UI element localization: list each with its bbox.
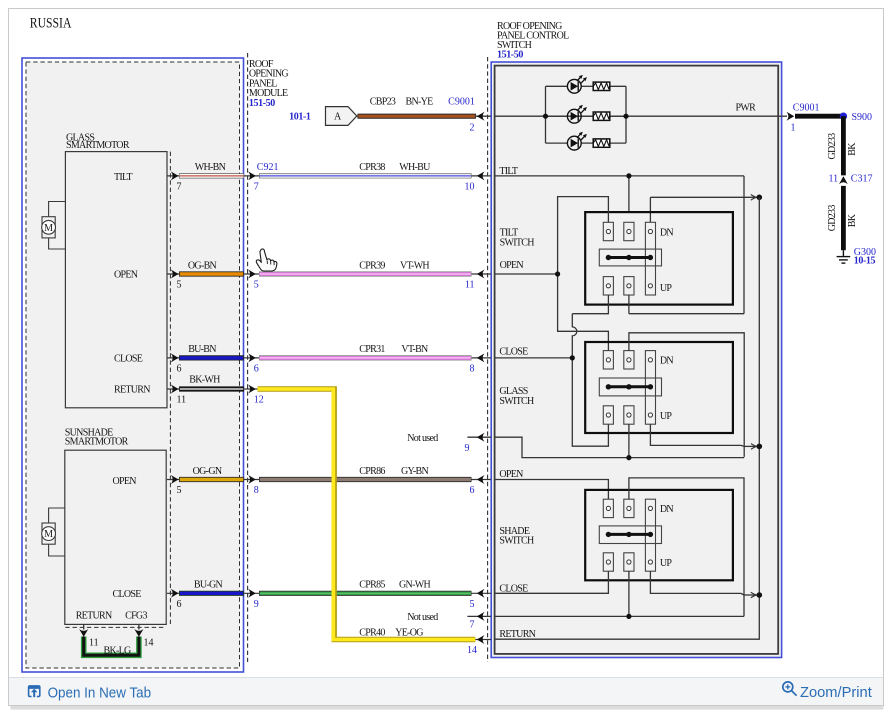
wire glass pin2 top to trunk — [629, 333, 759, 457]
svg-text:14: 14 — [467, 645, 477, 656]
svg-text:CPR38: CPR38 — [359, 162, 385, 173]
motor symbol M (glass) — [42, 202, 66, 250]
svg-text:OPEN: OPEN — [500, 260, 524, 271]
footer bar — [29, 682, 872, 702]
svg-text:UP: UP — [660, 558, 673, 569]
node rail-left — [543, 114, 548, 119]
svg-text:YE-OG: YE-OG — [395, 627, 423, 638]
wire GD233 BK lower — [827, 186, 858, 250]
svg-text:Not used: Not used — [407, 433, 438, 444]
svg-text:6: 6 — [177, 364, 182, 375]
svg-text:6: 6 — [254, 364, 259, 375]
node trunk-glass junction — [757, 444, 763, 450]
svg-text:2: 2 — [470, 122, 475, 133]
wire glass OPEN OG-BN pin 5 — [167, 260, 491, 290]
svg-text:Zoom/Print: Zoom/Print — [800, 685, 872, 701]
PWR net inside switch — [495, 115, 779, 117]
GLASS/SUNSHADE smartmotor assembly box — [22, 58, 244, 672]
svg-text:BU-BN: BU-BN — [188, 344, 216, 355]
svg-text:GD233: GD233 — [827, 205, 838, 232]
svg-text:CPR39: CPR39 — [359, 260, 385, 271]
svg-text:9: 9 — [465, 443, 470, 454]
svg-text:CPR40: CPR40 — [359, 627, 385, 638]
wire CPR85 GN-WH pin 9 to pin 5 — [248, 580, 484, 610]
svg-text:1: 1 — [791, 122, 796, 133]
svg-text:10: 10 — [465, 182, 475, 193]
svg-text:DN: DN — [660, 504, 674, 515]
ROOF OPENING PANEL CONTROL SWITCH box — [491, 21, 781, 658]
node trunk-shade junction — [757, 592, 763, 598]
svg-text:OG-GN: OG-GN — [193, 466, 222, 477]
svg-text:7: 7 — [254, 182, 259, 193]
svg-text:C9001: C9001 — [793, 102, 820, 113]
svg-text:GN-WH: GN-WH — [399, 580, 430, 591]
svg-text:9: 9 — [254, 599, 259, 610]
svg-text:VT-BN: VT-BN — [401, 344, 428, 355]
svg-text:8: 8 — [470, 364, 475, 375]
svg-text:Open In New Tab: Open In New Tab — [48, 685, 152, 701]
LED D2 — [567, 105, 587, 123]
wire tilt pin2 bottom — [628, 295, 630, 314]
svg-text:11: 11 — [465, 280, 475, 291]
wire CPR86 GY-BN pin 8 to pin 6 — [248, 466, 484, 496]
svg-text:CBP23: CBP23 — [370, 97, 396, 108]
svg-text:SMARTMOTOR: SMARTMOTOR — [65, 437, 129, 448]
wire glass TILT WH-BN pin 7 — [167, 162, 491, 192]
wire not-used pin9 line — [495, 424, 745, 457]
svg-text:SWITCH: SWITCH — [500, 237, 535, 248]
module connector dashed line C921 — [247, 53, 249, 662]
svg-text:CFG3: CFG3 — [125, 611, 147, 622]
node S900 — [840, 113, 847, 120]
GLASS SWITCH S2 — [499, 342, 733, 433]
svg-text:8: 8 — [254, 485, 259, 496]
wire CPR31 VT-BN pin 6 to pin 8 — [248, 344, 484, 374]
svg-text:M: M — [44, 223, 53, 234]
node pin9-glass tap — [626, 455, 631, 460]
svg-text:RETURN: RETURN — [114, 385, 150, 396]
svg-text:TILT: TILT — [499, 166, 518, 177]
svg-text:M: M — [44, 529, 53, 540]
svg-text:5: 5 — [177, 280, 182, 291]
wire not used pin 9 — [407, 433, 491, 454]
svg-text:DN: DN — [660, 356, 674, 367]
connector C921 pin 7 / wire CPR38 WH-BU to pin 10 — [248, 162, 484, 192]
svg-text:CPR86: CPR86 — [359, 466, 385, 477]
svg-text:7: 7 — [177, 182, 182, 193]
wire sunshade OPEN OG-GN pin 5 — [167, 466, 491, 496]
node trunk-tilt junction — [757, 195, 763, 201]
connector A tag 101-1 — [289, 107, 357, 126]
return trunk wire — [495, 197, 760, 639]
wire PWR out to C9001 pin 1 — [778, 102, 819, 133]
wire CPR40 YE-OG pin 12 to pin 14 — [258, 389, 492, 656]
svg-text:BK: BK — [847, 213, 858, 227]
svg-text:10-15: 10-15 — [854, 255, 876, 266]
resistor R2 — [593, 112, 610, 120]
SHADE SWITCH S3 — [499, 490, 733, 580]
svg-text:DN: DN — [660, 227, 674, 238]
svg-text:151-50: 151-50 — [249, 98, 275, 109]
node TILT tap — [626, 173, 631, 178]
open in new tab icon — [29, 686, 40, 698]
wire BK to S900 — [795, 114, 843, 119]
svg-text:GY-BN: GY-BN — [401, 466, 429, 477]
wire GD233 BK upper — [827, 116, 858, 175]
switch connector dashed line C9001 — [487, 57, 489, 662]
svg-text:OPEN: OPEN — [499, 469, 523, 480]
svg-text:UP: UP — [660, 411, 673, 422]
svg-text:12: 12 — [254, 395, 264, 406]
svg-text:VT-WH: VT-WH — [400, 260, 429, 271]
wire glass CLOSE BU-BN pin 6 — [167, 344, 491, 374]
wire shade pin2 top to trunk — [629, 478, 759, 617]
svg-text:101-1: 101-1 — [289, 112, 311, 123]
wire CPR39 VT-WH pin 5 to pin 11 — [248, 260, 484, 290]
LED D3 — [567, 132, 587, 150]
wire sunshade BK-LG pins 11-14 — [79, 624, 153, 656]
svg-text:Not used: Not used — [407, 612, 438, 623]
svg-text:11: 11 — [177, 395, 187, 406]
svg-text:CPR31: CPR31 — [359, 344, 385, 355]
svg-text:WH-BU: WH-BU — [399, 162, 431, 173]
svg-text:SMARTMOTOR: SMARTMOTOR — [66, 140, 130, 151]
wire not-used pin7 line — [495, 571, 744, 616]
wire tilt DN to trunk — [650, 195, 759, 223]
wire CBP23 BN-YE to C9001 pin 2 — [357, 97, 491, 134]
ROOF OPENING PANEL MODULE label — [249, 59, 288, 109]
ground G300 — [837, 250, 851, 263]
node OPEN tap — [555, 271, 560, 276]
svg-text:6: 6 — [470, 485, 475, 496]
svg-text:BK-WH: BK-WH — [189, 375, 220, 386]
wire not used pin 7 — [407, 612, 491, 631]
node rail-right — [623, 114, 628, 119]
svg-text:OG-BN: OG-BN — [188, 260, 217, 271]
connector C317 pin 11 — [829, 174, 873, 185]
svg-text:A: A — [334, 112, 342, 123]
svg-text:BK: BK — [847, 142, 858, 156]
svg-text:RETURN: RETURN — [76, 611, 112, 622]
svg-text:SWITCH: SWITCH — [499, 396, 534, 407]
svg-text:CLOSE: CLOSE — [113, 589, 142, 600]
resistor R1 — [593, 82, 610, 90]
svg-text:6: 6 — [177, 599, 182, 610]
svg-text:5: 5 — [470, 599, 475, 610]
node CLOSE tap — [570, 355, 575, 360]
LED D1 — [567, 75, 587, 93]
TILT SWITCH S1 — [500, 212, 733, 305]
svg-text:PWR: PWR — [736, 103, 757, 114]
svg-text:WH-BN: WH-BN — [195, 162, 226, 173]
connector dashed line at motors — [65, 152, 170, 628]
glass smartmotor M1 — [65, 132, 167, 408]
wire tilt pin1 bottom to CLOSE with hop — [572, 295, 608, 358]
svg-text:BK-LG: BK-LG — [104, 646, 132, 657]
svg-text:BN-YE: BN-YE — [405, 97, 433, 108]
svg-text:5: 5 — [254, 280, 259, 291]
svg-text:RETURN: RETURN — [499, 629, 535, 640]
svg-text:TILT: TILT — [114, 172, 133, 183]
svg-text:UP: UP — [660, 283, 673, 294]
svg-text:OPEN: OPEN — [114, 269, 138, 280]
wire sunshade CLOSE BU-GN pin 6 — [167, 580, 491, 610]
svg-text:C9001: C9001 — [448, 97, 475, 108]
svg-text:CLOSE: CLOSE — [114, 354, 143, 365]
svg-text:BU-GN: BU-GN — [194, 580, 223, 591]
resistor R3 — [593, 139, 610, 147]
svg-text:5: 5 — [177, 485, 182, 496]
svg-text:11: 11 — [89, 638, 99, 649]
magnifier icon — [783, 682, 797, 696]
svg-text:C317: C317 — [851, 174, 873, 185]
svg-text:GD233: GD233 — [827, 133, 838, 160]
svg-text:CPR85: CPR85 — [359, 580, 385, 591]
sunshade smartmotor M2 — [65, 428, 166, 625]
svg-text:OPEN: OPEN — [113, 476, 137, 487]
svg-text:11: 11 — [829, 174, 839, 185]
wire shade DN bottom — [650, 571, 744, 595]
svg-text:151-50: 151-50 — [497, 50, 523, 61]
motor symbol M (sunshade) — [42, 508, 65, 556]
svg-text:S900: S900 — [852, 112, 873, 123]
svg-text:C921: C921 — [257, 162, 279, 173]
svg-text:14: 14 — [144, 638, 154, 649]
svg-text:SWITCH: SWITCH — [499, 536, 534, 547]
svg-text:7: 7 — [470, 620, 475, 631]
LED rail wires — [546, 86, 627, 143]
mouse cursor — [256, 249, 277, 271]
svg-text:CLOSE: CLOSE — [499, 346, 528, 357]
wire glass RETURN BK-WH pin 11 to pin 12 — [167, 375, 264, 406]
svg-text:RUSSIA: RUSSIA — [30, 15, 72, 31]
node pin7-shade tap — [626, 614, 631, 619]
wire glass DN bottom — [650, 424, 744, 446]
